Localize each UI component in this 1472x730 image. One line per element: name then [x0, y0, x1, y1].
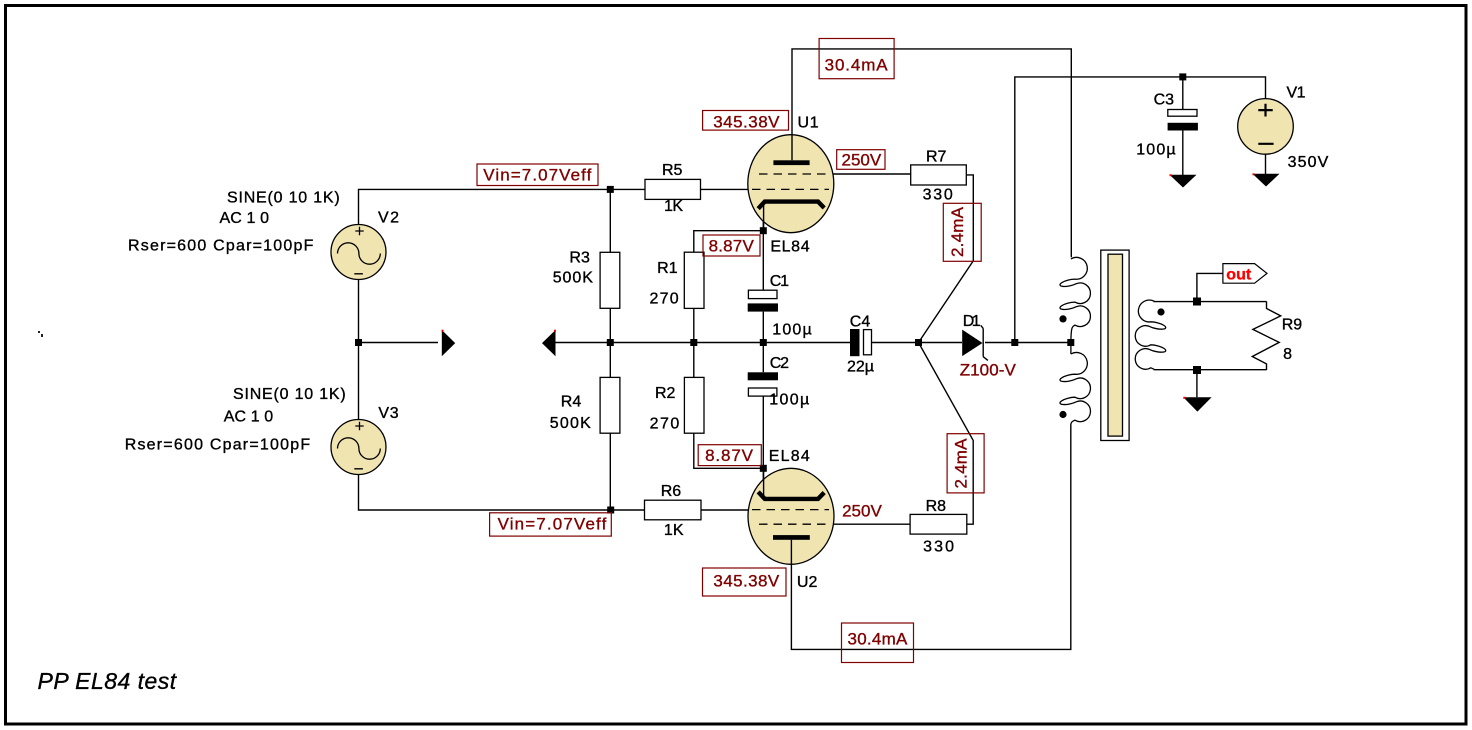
svg-text:C4: C4	[850, 314, 871, 331]
svg-text:Z100-V: Z100-V	[960, 361, 1017, 380]
resistor R5	[645, 162, 701, 215]
svg-text:Rser=600 Cpar=100pF: Rser=600 Cpar=100pF	[125, 437, 311, 454]
svg-text:8: 8	[1283, 346, 1292, 363]
node bus C1	[760, 339, 767, 346]
svg-text:C3: C3	[1154, 92, 1175, 109]
svg-text:SINE(0 10 1K): SINE(0 10 1K)	[233, 386, 346, 403]
svg-text:R9: R9	[1282, 317, 1303, 334]
wire out flag	[1197, 273, 1223, 301]
wire U2 screen to R8	[833, 523, 910, 525]
svg-text:1K: 1K	[664, 522, 684, 539]
svg-text:EL84: EL84	[770, 239, 809, 256]
node secondary top	[1193, 298, 1201, 306]
wire junction to B+ rail	[1015, 77, 1266, 343]
wire C1 leads	[762, 231, 764, 343]
primary lower dot	[1059, 411, 1066, 418]
tube U1 EL84	[748, 115, 834, 256]
label 2.4mA upper	[943, 203, 981, 261]
svg-text:R6: R6	[661, 483, 682, 500]
svg-text:R4: R4	[561, 394, 582, 411]
svg-text:330: 330	[923, 539, 954, 556]
wire C2 leads	[762, 343, 764, 469]
svg-text:SINE(0 10 1K): SINE(0 10 1K)	[227, 190, 340, 207]
voltage source V2	[128, 190, 399, 280]
node bus B+ rail	[1011, 339, 1018, 346]
wire U2 cathode lead	[762, 468, 764, 497]
svg-text:V2: V2	[378, 210, 399, 227]
svg-text:V1: V1	[1287, 85, 1306, 102]
voltage source V3	[125, 386, 399, 475]
svg-text:D1: D1	[963, 313, 981, 330]
svg-text:500K: 500K	[550, 415, 591, 432]
tube U2 EL84	[748, 448, 834, 591]
wire U1 cathode lead	[762, 203, 764, 231]
label Vin top	[477, 164, 598, 186]
resistor R9 zigzag	[1252, 301, 1302, 370]
svg-text:30.4mA: 30.4mA	[825, 56, 889, 75]
svg-text:Vin=7.07Veff: Vin=7.07Veff	[498, 515, 607, 534]
resistor R3	[553, 250, 620, 309]
node U1 cathode	[760, 227, 767, 234]
wire R8 right, up, diagonal to junction	[919, 343, 974, 525]
svg-text:350V: 350V	[1288, 154, 1329, 171]
capacitor C4	[847, 314, 874, 376]
svg-text:R3: R3	[569, 250, 590, 267]
primary upper dot	[1059, 315, 1066, 322]
label 250V U1	[837, 150, 885, 170]
wire R1 column	[694, 231, 764, 343]
wire V1 bottom lead	[1265, 154, 1267, 174]
left-pointing arrow	[542, 330, 556, 357]
svg-text:100µ: 100µ	[1136, 142, 1175, 159]
wire V2 top to junction	[359, 189, 611, 224]
svg-text:22µ: 22µ	[847, 359, 874, 376]
wire U1 plate to top rail	[792, 49, 1071, 257]
svg-text:250V: 250V	[842, 151, 882, 170]
label 30.4mA top	[819, 39, 894, 79]
svg-text:Vin=7.07Veff: Vin=7.07Veff	[483, 166, 591, 185]
svg-text:270: 270	[650, 415, 680, 432]
wire mid junction to right arrow	[359, 342, 439, 344]
svg-text:2.4mA: 2.4mA	[951, 438, 970, 489]
node Vin bottom	[607, 507, 614, 514]
voltage source V1	[1238, 85, 1329, 172]
svg-text:100µ: 100µ	[772, 322, 811, 339]
svg-text:Rser=600 Cpar=100pF: Rser=600 Cpar=100pF	[128, 238, 314, 255]
svg-text:C1: C1	[770, 273, 789, 290]
resistor R4	[550, 377, 620, 433]
svg-text:R1: R1	[657, 260, 678, 277]
svg-text:345.38V: 345.38V	[713, 572, 779, 591]
resistor R7	[911, 149, 967, 204]
resistor R1	[650, 252, 705, 308]
svg-text:R2: R2	[655, 385, 676, 402]
wire R3 column	[609, 189, 611, 510]
svg-text:out: out	[1226, 267, 1252, 284]
svg-text:PP EL84 test: PP EL84 test	[38, 668, 178, 694]
central bus	[610, 342, 850, 344]
node U2 cathode	[760, 465, 767, 472]
secondary dot	[1157, 308, 1164, 315]
svg-text:U1: U1	[798, 115, 819, 132]
zener diode D1	[960, 313, 1017, 380]
wire V2 bottom to mid junction	[358, 280, 360, 343]
label 345.38V U1	[703, 111, 789, 132]
wire V3 bottom bus	[359, 475, 645, 511]
svg-text:2.4mA: 2.4mA	[948, 206, 967, 257]
svg-text:8.87V: 8.87V	[705, 446, 754, 465]
label 30.4mA bottom	[842, 623, 914, 663]
capacitor C2	[748, 355, 810, 409]
resistor R8	[910, 498, 967, 556]
wire R7 right, down, diagonal to junction	[919, 175, 974, 343]
node secondary bottom	[1193, 366, 1201, 374]
wire mid junction to V3 top	[358, 343, 360, 420]
wire D1 cathode to center tap	[985, 342, 1071, 344]
wire C3 top lead	[1182, 77, 1184, 110]
svg-text:R8: R8	[926, 498, 947, 515]
svg-text:345.38V: 345.38V	[713, 113, 780, 132]
wire C3 bottom lead to ground	[1182, 131, 1184, 176]
svg-text:U2: U2	[797, 574, 818, 591]
label 2.4mA lower	[947, 434, 984, 493]
capacitor C3	[1136, 92, 1198, 159]
node bus R3	[607, 339, 614, 346]
wire R5 left lead	[610, 188, 645, 190]
node C3 top	[1179, 73, 1186, 80]
transformer primary lower coil	[1059, 343, 1090, 425]
transformer core	[1101, 250, 1129, 440]
resistor R2	[650, 377, 704, 433]
node mid V2/V3	[355, 339, 362, 346]
wire U1 screen to R7	[833, 173, 911, 175]
wire C4 right to junction	[872, 342, 963, 344]
ground under secondary	[1183, 397, 1211, 412]
wire U2 plate to bottom rail	[791, 425, 1070, 650]
resistor R6	[645, 483, 702, 539]
transformer secondary coil	[1135, 300, 1165, 370]
wire left arrow to bus	[555, 342, 610, 344]
svg-text:100µ: 100µ	[769, 392, 809, 409]
svg-text:AC 1 0: AC 1 0	[224, 408, 274, 425]
svg-text:AC 1 0: AC 1 0	[220, 210, 270, 227]
node bus diagonals	[915, 339, 922, 346]
svg-text:V3: V3	[378, 405, 398, 422]
out net flag	[1223, 264, 1267, 284]
svg-text:R7: R7	[926, 149, 947, 166]
ground under C3	[1170, 174, 1197, 187]
svg-text:EL84: EL84	[769, 448, 810, 465]
label Vin bottom	[490, 513, 612, 536]
transformer primary upper coil	[1059, 257, 1090, 341]
svg-text:250V: 250V	[842, 501, 882, 520]
svg-text:R5: R5	[662, 162, 683, 179]
svg-text:1K: 1K	[664, 198, 683, 215]
svg-text:30.4mA: 30.4mA	[848, 630, 909, 649]
capacitor C1	[748, 273, 812, 339]
wire secondary top to R9	[1154, 301, 1267, 303]
svg-text:270: 270	[650, 291, 679, 308]
wire R6 right lead to U2	[701, 509, 748, 511]
node junction squares	[355, 73, 1201, 513]
node center tap	[1067, 339, 1074, 346]
svg-text:C2: C2	[770, 355, 789, 372]
label 345.38V U2	[703, 568, 787, 596]
ground under V1	[1253, 173, 1280, 186]
node bus R1	[690, 339, 697, 346]
node Vin top	[607, 186, 614, 193]
wire secondary bottom to R9	[1154, 369, 1267, 371]
svg-text:8.87V: 8.87V	[709, 237, 755, 256]
label 8.87V U2	[698, 445, 761, 466]
label 8.87V U1	[703, 235, 760, 256]
wire R5 right lead to U1	[701, 188, 751, 190]
wire R2 column	[694, 343, 764, 469]
svg-text:500K: 500K	[553, 270, 594, 287]
wire secondary ground lead	[1196, 370, 1198, 397]
svg-text:330: 330	[923, 186, 953, 203]
right-pointing arrow	[442, 330, 456, 357]
